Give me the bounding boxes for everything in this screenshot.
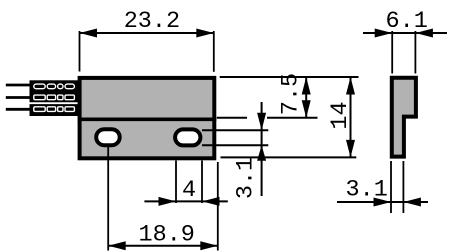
wire 3: [6, 108, 31, 111]
leader top edge: [220, 76, 359, 78]
svg-text:3.1: 3.1: [346, 177, 388, 204]
dim 23.2 arrow right: [196, 29, 214, 38]
dim 14 line: [350, 77, 352, 157]
leader bottom edge: [221, 156, 357, 158]
dim 23.2 extension line right: [213, 31, 215, 72]
dim 3.1 slot vertical line: [261, 102, 263, 196]
dim 4 arrow right: [202, 197, 220, 206]
leader divider edge right segment: [267, 117, 318, 119]
left mounting slot: [96, 129, 120, 145]
leader slot bottom edge: [202, 144, 268, 146]
dim 18.9 arrow left: [108, 241, 126, 250]
dim 14 arrow up: [346, 77, 355, 95]
dim 7.5 arrow up: [302, 77, 311, 95]
dim 6.1 extension line right: [414, 31, 416, 74]
dim 23.2 line: [80, 32, 214, 34]
dim 3.1 side arrow right: [403, 198, 421, 207]
dim 4 extension line right: [201, 161, 203, 204]
dim 6.1 line: [363, 32, 447, 34]
dim 3.1 slot arrow down: [257, 113, 266, 131]
leader slot top edge: [202, 129, 268, 131]
dim 6.1 extension line left: [391, 31, 393, 74]
dim 3.1 side extension line left: [390, 161, 392, 213]
leader divider edge: [217, 117, 247, 119]
dim 3.1 side line: [337, 201, 428, 203]
right mounting slot: [175, 129, 200, 145]
svg-text:3.1: 3.1: [233, 157, 260, 199]
dim 7.5 arrow down: [302, 100, 311, 118]
dim 18.9 extension line left: [107, 147, 109, 251]
svg-text:7.5: 7.5: [278, 73, 305, 115]
dim 18.9 extension line right: [217, 162, 219, 251]
dim 3.1 slot arrow up: [257, 145, 266, 161]
switch body front view: [80, 78, 215, 158]
wire 1: [6, 84, 31, 87]
svg-text:4: 4: [182, 177, 196, 204]
wire 2: [6, 96, 31, 99]
dim 18.9 line: [108, 245, 218, 247]
dim 18.9 arrow right: [200, 241, 218, 250]
svg-text:14: 14: [327, 101, 354, 129]
dim 4 arrow left: [159, 197, 177, 206]
switch body side view: [392, 78, 416, 157]
dim 6.1 arrow right: [415, 29, 433, 38]
dim 3.1 side extension line right: [402, 161, 404, 213]
dim 4 extension line left: [175, 161, 177, 204]
dim 14 arrow down: [346, 140, 355, 158]
dim 23.2 arrow left: [80, 29, 98, 38]
svg-text:6.1: 6.1: [386, 8, 428, 35]
dim 4 line: [144, 200, 227, 202]
dim 6.1 arrow left: [375, 29, 393, 38]
body divider line: [78, 118, 217, 122]
dim 3.1 side arrow left: [374, 198, 392, 207]
dim 23.2 extension line left: [79, 31, 81, 72]
dim 7.5 line: [305, 77, 307, 118]
svg-text:18.9: 18.9: [138, 222, 194, 249]
wire termination block: [30, 80, 79, 116]
svg-text:23.2: 23.2: [124, 8, 180, 35]
